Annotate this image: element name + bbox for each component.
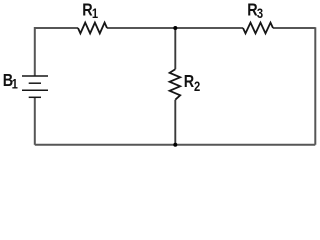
svg-text:R: R: [184, 71, 195, 91]
node top junction: [173, 26, 177, 30]
wire top-left segment: [35, 28, 78, 76]
wire bottom: [35, 144, 316, 146]
wire top-right segment: [273, 27, 315, 29]
wire top-middle segment: [107, 27, 175, 29]
resistor R1: [78, 23, 107, 34]
battery B1: [22, 76, 48, 97]
resistor R3: [243, 23, 273, 34]
wire middle branch upper: [174, 28, 176, 69]
svg-text:1: 1: [12, 76, 18, 91]
resistor R2: [170, 69, 181, 100]
wire left-bottom segment: [34, 97, 36, 145]
svg-text:1: 1: [92, 6, 98, 21]
node bottom junction: [173, 143, 177, 147]
wire middle branch lower: [174, 100, 176, 145]
svg-text:3: 3: [257, 6, 263, 21]
wire junction-to-R3 segment: [175, 27, 243, 29]
wire right side: [314, 27, 316, 145]
svg-text:2: 2: [194, 79, 200, 94]
